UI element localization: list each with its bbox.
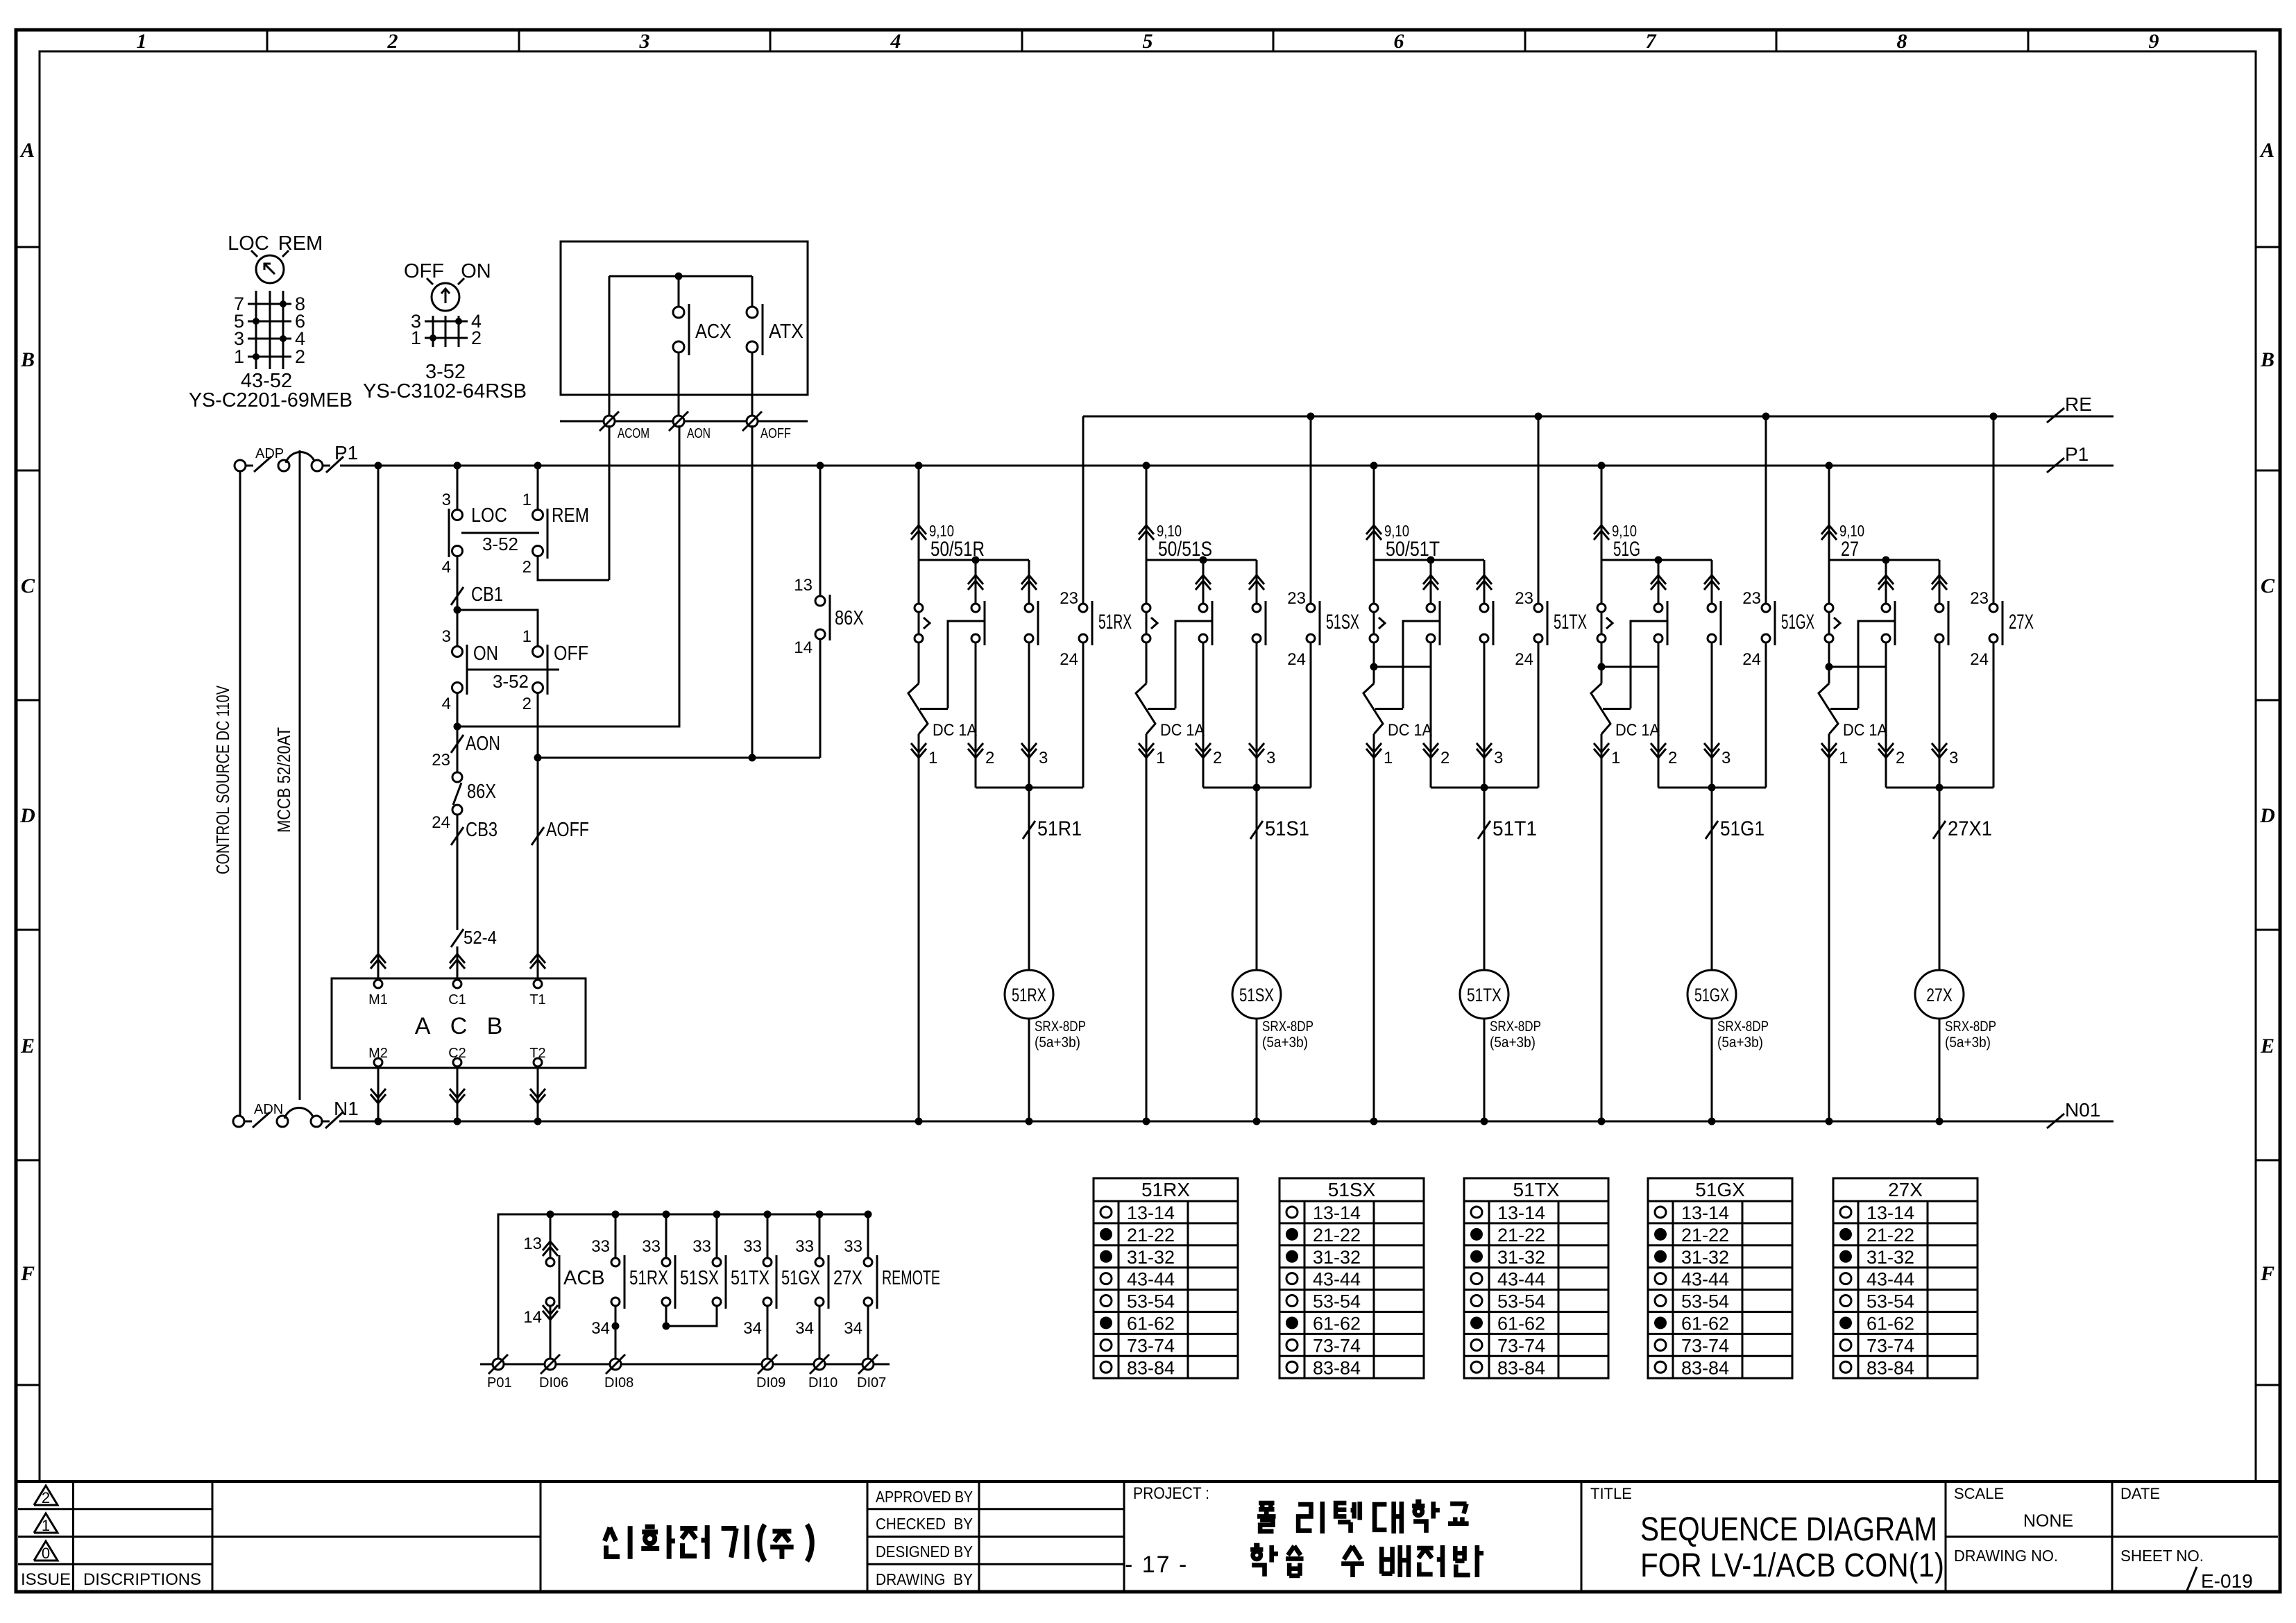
- contact 51GX 33-34: [743, 1214, 820, 1309]
- wire ATX bottom to AOFF terminal: [751, 352, 754, 421]
- svg-text:D: D: [19, 804, 35, 827]
- svg-text:RE: RE: [2065, 393, 2092, 415]
- svg-text:51SX: 51SX: [1328, 1179, 1376, 1200]
- svg-text:DI09: DI09: [756, 1375, 785, 1391]
- node inner bus junction: [675, 273, 683, 280]
- svg-text:51GX: 51GX: [781, 1267, 820, 1289]
- svg-text:9: 9: [2149, 30, 2159, 53]
- svg-text:83-84: 83-84: [1497, 1357, 1545, 1378]
- svg-text:SEQUENCE DIAGRAM: SEQUENCE DIAGRAM: [1640, 1511, 1937, 1548]
- svg-text:ISSUE: ISSUE: [21, 1570, 71, 1589]
- node N1 coil 51GX: [1708, 1118, 1716, 1125]
- svg-text:34: 34: [844, 1319, 862, 1338]
- contact 86X mid chain: [432, 751, 496, 832]
- svg-text:5: 5: [1143, 30, 1153, 53]
- wire P1 to LOC contact: [457, 466, 459, 511]
- svg-text:21-22: 21-22: [1866, 1225, 1914, 1246]
- svg-text:61-62: 61-62: [1313, 1313, 1361, 1334]
- relay unit 27: [1819, 413, 2034, 1125]
- svg-text:34: 34: [591, 1319, 610, 1338]
- svg-text:13-14: 13-14: [1681, 1203, 1729, 1223]
- wire M1 branch: [377, 466, 380, 984]
- wire 27X to DI10: [795, 1306, 819, 1364]
- svg-text:31-32: 31-32: [1127, 1247, 1175, 1268]
- wire 86X branch upper: [819, 466, 822, 597]
- svg-text:1: 1: [1384, 749, 1393, 767]
- svg-text:27X: 27X: [2009, 611, 2034, 634]
- svg-text:DI06: DI06: [539, 1375, 568, 1391]
- svg-text:27X: 27X: [833, 1267, 862, 1289]
- svg-text:ON: ON: [473, 643, 498, 665]
- wire LOC-4 to CB1: [457, 555, 459, 610]
- company name block: [604, 1524, 812, 1561]
- terminal N1 left: [233, 1116, 244, 1127]
- svg-text:51S1: 51S1: [1265, 817, 1309, 840]
- ACB control box: [332, 978, 586, 1068]
- title block row lines: [18, 1509, 2278, 1565]
- svg-text:27X: 27X: [1888, 1179, 1923, 1200]
- selector switch 43-52 labels LOC REM: [228, 232, 323, 255]
- contact ON 3-52: [442, 627, 498, 713]
- svg-text:23: 23: [1970, 589, 1989, 608]
- svg-text:33: 33: [692, 1237, 711, 1256]
- row letters A-F: [19, 139, 2275, 1285]
- terminal AOFF: [742, 411, 791, 441]
- svg-text:27: 27: [1841, 538, 1859, 561]
- wire CB1 junction down to ON contact: [457, 610, 459, 647]
- svg-text:2: 2: [522, 558, 532, 577]
- svg-text:AON: AON: [466, 733, 500, 755]
- wire interlock sub bus: [666, 1306, 717, 1326]
- wire 52-4 to C1: [457, 946, 459, 984]
- relay coil 51TX: [1460, 970, 1541, 1051]
- svg-text:51G: 51G: [1613, 538, 1640, 561]
- switch AON: [451, 733, 500, 755]
- svg-text:1: 1: [411, 328, 421, 348]
- switch CB3: [451, 819, 498, 845]
- svg-text:33: 33: [743, 1237, 762, 1256]
- MCCB 52/20AT breaker line: [299, 450, 301, 1100]
- svg-text:DC 1A: DC 1A: [1843, 721, 1887, 740]
- svg-text:F: F: [2260, 1262, 2274, 1285]
- svg-text:33: 33: [844, 1237, 862, 1256]
- svg-text:51TX: 51TX: [731, 1267, 769, 1289]
- svg-text:DC 1A: DC 1A: [1615, 721, 1660, 740]
- svg-text:DC 1A: DC 1A: [1388, 721, 1432, 740]
- switch 51S1: [1250, 817, 1309, 840]
- svg-text:(5a+3b): (5a+3b): [1945, 1035, 1991, 1051]
- svg-text:51RX: 51RX: [1012, 985, 1046, 1005]
- svg-text:ADP: ADP: [255, 446, 284, 461]
- terminal DI10: [808, 1354, 837, 1391]
- title block column lines: [74, 1481, 2113, 1592]
- svg-text:CB3: CB3: [466, 819, 498, 841]
- wire RE left drop to P1 column: [1082, 416, 1085, 466]
- svg-text:N01: N01: [2065, 1099, 2100, 1121]
- wire ACX top stub: [678, 276, 680, 307]
- svg-text:SRX-8DP: SRX-8DP: [1717, 1019, 1769, 1035]
- svg-text:3: 3: [1266, 749, 1275, 767]
- terminal P01: [487, 1354, 512, 1391]
- terminal DI09: [756, 1354, 785, 1391]
- svg-text:0: 0: [42, 1545, 50, 1562]
- project name korean line1: [1257, 1502, 1469, 1533]
- svg-text:P1: P1: [334, 442, 358, 464]
- switch N1 slash: [322, 1098, 359, 1128]
- svg-text:SRX-8DP: SRX-8DP: [1262, 1019, 1313, 1035]
- contact REM 43-52: [522, 491, 589, 577]
- svg-text:4: 4: [890, 30, 901, 53]
- svg-text:53-54: 53-54: [1866, 1291, 1914, 1312]
- svg-text:51SX: 51SX: [1239, 985, 1274, 1005]
- node bus 27X: [816, 1211, 824, 1218]
- wire ATX top stub: [751, 276, 754, 307]
- svg-text:APPROVED BY: APPROVED BY: [876, 1488, 973, 1506]
- contact 51TX 33-34: [692, 1214, 769, 1309]
- svg-text:53-54: 53-54: [1681, 1291, 1729, 1312]
- contact 86X breaker branch: [794, 576, 864, 657]
- switch AOFF: [532, 819, 589, 845]
- svg-text:(5a+3b): (5a+3b): [1717, 1035, 1763, 1051]
- svg-text:53-54: 53-54: [1313, 1291, 1361, 1312]
- svg-text:2: 2: [985, 749, 994, 767]
- chevron T1 up: [530, 954, 545, 963]
- svg-text:1: 1: [42, 1517, 50, 1534]
- svg-text:33: 33: [591, 1237, 610, 1256]
- svg-text:OFF: OFF: [554, 643, 588, 665]
- svg-text:73-74: 73-74: [1313, 1335, 1361, 1356]
- node bus ACB: [547, 1211, 554, 1218]
- wire 86X branch lower: [819, 638, 822, 758]
- svg-text:C1: C1: [448, 992, 466, 1008]
- svg-text:51SX: 51SX: [1326, 611, 1359, 634]
- label P1 right end: [2047, 443, 2089, 473]
- svg-text:23: 23: [1287, 589, 1306, 608]
- svg-text:3: 3: [1949, 749, 1958, 767]
- svg-text:23: 23: [432, 751, 450, 770]
- svg-text:24: 24: [432, 813, 450, 832]
- svg-text:YS-C3102-64RSB: YS-C3102-64RSB: [363, 380, 527, 402]
- svg-text:2: 2: [1668, 749, 1677, 767]
- wire REM-2 to ACOM line: [538, 555, 609, 580]
- wire coil 27X to N1: [1939, 1019, 1941, 1121]
- svg-text:51RX: 51RX: [1141, 1179, 1190, 1200]
- svg-text:SCALE: SCALE: [1954, 1485, 2004, 1502]
- selector switch 3-52 name: [363, 361, 527, 402]
- svg-text:51G1: 51G1: [1720, 817, 1764, 840]
- node P1 REM branch: [534, 462, 542, 470]
- svg-text:2: 2: [1896, 749, 1905, 767]
- contact table 51GX: [1648, 1178, 1792, 1378]
- svg-text:43-44: 43-44: [1313, 1269, 1361, 1290]
- svg-text:N1: N1: [334, 1098, 359, 1119]
- svg-text:TITLE: TITLE: [1590, 1485, 1632, 1502]
- node AOFF net junction: [534, 754, 542, 762]
- wire coil 51TX to N1: [1483, 1019, 1486, 1121]
- svg-text:2: 2: [1440, 749, 1449, 767]
- contact table 51RX: [1094, 1178, 1238, 1378]
- svg-text:27X: 27X: [1926, 985, 1953, 1005]
- wire CB1 junction to OFF chain: [457, 610, 538, 647]
- relay unit 50/51T: [1363, 413, 1587, 1125]
- svg-text:73-74: 73-74: [1681, 1335, 1729, 1356]
- svg-text:DESIGNED BY: DESIGNED BY: [876, 1543, 973, 1561]
- svg-text:OFF: OFF: [404, 260, 444, 282]
- svg-text:73-74: 73-74: [1866, 1335, 1914, 1356]
- svg-text:NONE: NONE: [2023, 1511, 2073, 1531]
- svg-text:61-62: 61-62: [1681, 1313, 1729, 1334]
- svg-text:51R1: 51R1: [1037, 817, 1082, 840]
- relay coil 27X: [1915, 970, 1996, 1051]
- node P1 M1 branch: [375, 462, 382, 470]
- svg-text:24: 24: [1287, 650, 1306, 669]
- title block top line: [16, 1480, 2280, 1483]
- svg-text:2: 2: [387, 30, 398, 53]
- relay coil 51GX: [1687, 970, 1769, 1051]
- svg-text:CHECKED BY: CHECKED BY: [876, 1515, 973, 1533]
- svg-text:43-44: 43-44: [1497, 1269, 1545, 1290]
- terminal P1 third circle: [312, 460, 323, 471]
- svg-text:DISCRIPTIONS: DISCRIPTIONS: [83, 1570, 201, 1589]
- node AON junction: [454, 723, 461, 731]
- ACX ATX enclosure box: [561, 241, 808, 395]
- svg-text:3-52: 3-52: [493, 671, 529, 692]
- wire OFF-2 down: [537, 692, 539, 758]
- node AOFF terminal line junction: [749, 754, 756, 762]
- wire P1 to REM contact: [537, 466, 539, 511]
- project name korean line2: [1250, 1545, 1483, 1577]
- revision triangle 1: [34, 1513, 58, 1534]
- svg-text:24: 24: [1060, 650, 1078, 669]
- terminal M1: [368, 980, 388, 1008]
- wire 51RX to DI08: [615, 1306, 617, 1364]
- svg-text:2: 2: [42, 1489, 50, 1506]
- svg-text:51SX: 51SX: [680, 1267, 719, 1289]
- svg-text:ACX: ACX: [695, 321, 731, 343]
- contact table 51SX: [1279, 1178, 1424, 1378]
- svg-text:SRX-8DP: SRX-8DP: [1035, 1019, 1086, 1035]
- svg-text:DC 1A: DC 1A: [1160, 721, 1205, 740]
- svg-text:53-54: 53-54: [1127, 1291, 1175, 1312]
- svg-text:SRX-8DP: SRX-8DP: [1945, 1019, 1996, 1035]
- svg-text:2: 2: [1213, 749, 1222, 767]
- svg-text:21-22: 21-22: [1681, 1225, 1729, 1246]
- svg-text:3: 3: [639, 30, 650, 53]
- svg-text:8: 8: [1897, 30, 1907, 53]
- selector switch 43-52 name: [189, 370, 352, 411]
- wire inner bus: [609, 275, 752, 278]
- svg-text:3: 3: [1721, 749, 1730, 767]
- svg-text:21-22: 21-22: [1127, 1225, 1175, 1246]
- switch ADP: [246, 446, 289, 472]
- svg-text:2: 2: [295, 346, 305, 367]
- svg-text:ON: ON: [461, 260, 491, 282]
- svg-text:AOFF: AOFF: [546, 819, 589, 841]
- chevron C1 up: [450, 954, 465, 963]
- contact 27X 33-34: [795, 1214, 862, 1309]
- contact ACX: [673, 304, 731, 355]
- relay coil 51RX: [1005, 970, 1086, 1051]
- svg-text:83-84: 83-84: [1681, 1357, 1729, 1378]
- svg-text:73-74: 73-74: [1497, 1335, 1545, 1356]
- svg-text:C: C: [2261, 575, 2275, 597]
- switch 27X1: [1933, 817, 1992, 840]
- contact ACB 13-14: [523, 1214, 604, 1364]
- svg-text:DC 1A: DC 1A: [933, 721, 977, 740]
- wire ON-4 to AON junction: [457, 692, 459, 726]
- svg-text:ATX: ATX: [769, 321, 803, 343]
- svg-text:E-019: E-019: [2201, 1570, 2253, 1592]
- svg-text:PROJECT :: PROJECT :: [1133, 1484, 1209, 1503]
- svg-text:51TX: 51TX: [1554, 611, 1587, 634]
- svg-text:51TX: 51TX: [1513, 1179, 1560, 1200]
- terminal C1: [448, 980, 466, 1008]
- selector switch 43-52 contact grid: [248, 291, 291, 369]
- svg-text:33: 33: [795, 1237, 814, 1256]
- wire AON to 86X: [457, 726, 459, 773]
- wire REMOTE to DI07: [844, 1306, 868, 1364]
- svg-text:(5a+3b): (5a+3b): [1035, 1035, 1080, 1051]
- node bus 51SX: [663, 1211, 670, 1218]
- label N01 right end: [2047, 1099, 2100, 1128]
- wire coil 51SX to N1: [1256, 1019, 1258, 1121]
- svg-text:P1: P1: [2065, 443, 2089, 465]
- svg-text:(5a+3b): (5a+3b): [1490, 1035, 1536, 1051]
- svg-text:14: 14: [794, 638, 813, 657]
- svg-text:SRX-8DP: SRX-8DP: [1490, 1019, 1541, 1035]
- svg-text:34: 34: [795, 1319, 814, 1338]
- svg-text:51RX: 51RX: [629, 1267, 668, 1289]
- node N1 T2: [534, 1118, 542, 1125]
- divider 3-52 ON/OFF: [467, 670, 559, 692]
- switch P1 slash: [323, 442, 358, 473]
- revision triangle 2: [34, 1486, 58, 1506]
- svg-text:P01: P01: [487, 1375, 512, 1391]
- column numbers 1-9: [137, 30, 2159, 53]
- svg-text:DRAWING NO.: DRAWING NO.: [1954, 1547, 2058, 1565]
- terminal DI08: [604, 1354, 633, 1391]
- selector switch 3-52 contact grid: [425, 316, 468, 347]
- terminal T1: [529, 980, 545, 1008]
- svg-text:F: F: [20, 1262, 35, 1285]
- svg-text:31-32: 31-32: [1313, 1247, 1361, 1268]
- svg-text:14: 14: [523, 1308, 542, 1327]
- svg-text:3: 3: [442, 627, 451, 646]
- svg-text:FOR LV-1/ACB CON(1): FOR LV-1/ACB CON(1): [1640, 1547, 1944, 1584]
- svg-text:83-84: 83-84: [1313, 1357, 1361, 1378]
- terminal N1 third circle: [311, 1116, 322, 1127]
- svg-text:1: 1: [522, 491, 532, 509]
- wire coil 51RX to N1: [1028, 1019, 1030, 1121]
- svg-text:REM: REM: [552, 504, 589, 527]
- svg-text:- 17 -: - 17 -: [1125, 1552, 1188, 1578]
- contact 51RX 33-34: [591, 1214, 668, 1309]
- relay unit 50/51S: [1136, 413, 1359, 1125]
- contact ATX: [747, 304, 803, 355]
- wire AOFF net horizontal: [538, 757, 820, 759]
- wire ACOM drop inside box: [609, 276, 611, 421]
- svg-text:24: 24: [1742, 650, 1761, 669]
- svg-text:A C B: A C B: [415, 1013, 503, 1039]
- wire AOFF chain to T1: [537, 758, 539, 984]
- node bus 51TX: [713, 1211, 721, 1218]
- terminal T2: [529, 1046, 545, 1067]
- svg-text:AON: AON: [687, 426, 711, 441]
- node N1 coil 51SX: [1253, 1118, 1261, 1125]
- svg-text:DI07: DI07: [857, 1375, 886, 1391]
- wire ACX bottom to AON terminal: [678, 352, 680, 421]
- switch 51G1: [1706, 817, 1764, 840]
- svg-text:13: 13: [794, 576, 813, 595]
- svg-text:DRAWING BY: DRAWING BY: [876, 1570, 973, 1588]
- sheet number /E-019: [2187, 1567, 2253, 1592]
- svg-text:3-52: 3-52: [482, 534, 518, 554]
- node P1 86X branch: [817, 462, 824, 470]
- wire 51GX to DI09: [743, 1306, 767, 1364]
- svg-text:7: 7: [1646, 30, 1657, 53]
- terminal rail under box: [560, 420, 808, 423]
- wire coil 51GX to N1: [1711, 1019, 1713, 1121]
- contact table 27X: [1833, 1178, 1978, 1378]
- wire AON junction to AON terminal line: [457, 425, 679, 726]
- svg-text:24: 24: [1970, 650, 1989, 669]
- node P1 LOC branch: [454, 462, 461, 470]
- svg-text:21-22: 21-22: [1497, 1225, 1545, 1246]
- svg-text:61-62: 61-62: [1866, 1313, 1914, 1334]
- svg-text:6: 6: [1394, 30, 1404, 53]
- svg-text:34: 34: [743, 1319, 762, 1338]
- svg-text:51GX: 51GX: [1781, 611, 1814, 634]
- terminal C2: [448, 1046, 466, 1067]
- wire control source left vertical: [239, 471, 241, 1116]
- terminal P1 left: [235, 460, 246, 471]
- svg-text:61-62: 61-62: [1497, 1313, 1545, 1334]
- svg-text:A: A: [19, 139, 35, 162]
- revision triangle 0: [34, 1541, 58, 1562]
- svg-text:M1: M1: [368, 992, 388, 1008]
- relay unit 51G: [1591, 413, 1814, 1125]
- svg-text:(5a+3b): (5a+3b): [1262, 1035, 1308, 1051]
- svg-text:LOC: LOC: [471, 504, 507, 527]
- svg-text:E: E: [20, 1035, 35, 1057]
- svg-text:4: 4: [442, 558, 451, 577]
- svg-text:MCCB 52/20AT: MCCB 52/20AT: [273, 727, 294, 833]
- wire AOFF terminal vertical: [751, 425, 754, 758]
- svg-text:13-14: 13-14: [1866, 1203, 1914, 1223]
- svg-text:51T1: 51T1: [1493, 817, 1537, 840]
- svg-text:1: 1: [1839, 749, 1848, 767]
- svg-text:REM: REM: [278, 232, 323, 255]
- svg-text:43-44: 43-44: [1866, 1269, 1914, 1290]
- svg-text:13-14: 13-14: [1127, 1203, 1175, 1223]
- svg-text:C: C: [21, 575, 35, 597]
- svg-text:3: 3: [1494, 749, 1503, 767]
- svg-text:DATE: DATE: [2120, 1485, 2160, 1502]
- svg-text:DI10: DI10: [808, 1375, 837, 1391]
- switch ADN: [244, 1102, 288, 1128]
- fuse arc N1 side: [284, 1108, 314, 1119]
- svg-text:E: E: [2260, 1035, 2274, 1057]
- svg-text:43-44: 43-44: [1127, 1269, 1175, 1290]
- node sub bus 51RX: [612, 1323, 620, 1330]
- wire RE rail: [1083, 416, 2114, 418]
- svg-text:86X: 86X: [835, 607, 864, 629]
- wire interlock top bus: [498, 1214, 868, 1364]
- svg-text:31-32: 31-32: [1497, 1247, 1545, 1268]
- wire P1 rail: [340, 465, 2114, 467]
- svg-text:REMOTE: REMOTE: [882, 1267, 940, 1289]
- node N1 M2: [375, 1118, 382, 1125]
